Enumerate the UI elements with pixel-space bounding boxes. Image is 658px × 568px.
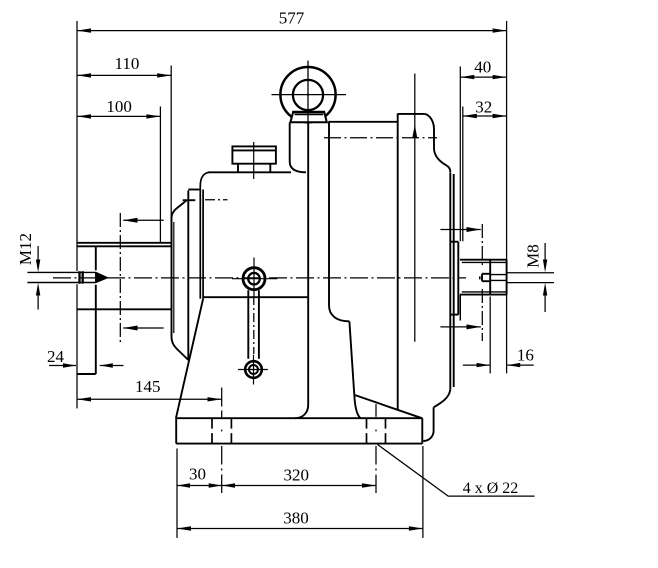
output shaft top inner xyxy=(462,261,507,263)
svg-text:380: 380 xyxy=(283,508,309,527)
base hole left side2 xyxy=(230,418,232,443)
M8 hole point tick xyxy=(479,276,481,279)
M8 thread inner bottom xyxy=(491,279,507,281)
arrowheads dim 577 xyxy=(77,28,91,32)
rim right edge upper xyxy=(433,130,435,149)
input shaft top line xyxy=(27,271,96,273)
dim 16 extension xyxy=(489,297,491,374)
dim 40 extension xyxy=(459,67,461,242)
oil level plug upper xyxy=(232,258,278,297)
dim 577 extension line left lower xyxy=(76,284,78,408)
svg-text:4 x Ø 22: 4 x Ø 22 xyxy=(463,480,519,497)
dim 40 line xyxy=(460,76,506,78)
base hole right side1 xyxy=(366,418,368,443)
body left edge outer xyxy=(200,172,209,298)
output shaft top outer xyxy=(460,259,507,261)
output shaft bottom inner xyxy=(462,291,507,293)
dim 100 extension xyxy=(159,107,161,244)
hub plate edge xyxy=(187,191,189,361)
cover boss lower edge xyxy=(459,295,461,321)
dim 577 line xyxy=(77,30,507,32)
base left edge xyxy=(175,418,177,443)
drum bottom fillet xyxy=(423,431,433,441)
main axis centerline xyxy=(53,277,466,279)
arrowhead right bolt circle upper xyxy=(467,227,481,232)
arrowheads dim 40 xyxy=(460,75,474,79)
flange plate right face upper xyxy=(95,246,97,270)
svg-text:24: 24 xyxy=(47,347,65,366)
body left edge inner xyxy=(202,190,204,299)
M8 hole bottom xyxy=(482,280,491,282)
arrowheads dim 320 xyxy=(222,483,235,487)
web right fillet to base xyxy=(354,395,360,418)
oil drain plug lower xyxy=(238,355,268,385)
eye bolt crosshair horizontal xyxy=(272,94,347,96)
svg-text:30: 30 xyxy=(189,465,206,484)
vertical reference line with up arrow xyxy=(414,74,416,342)
M8 thread inner top xyxy=(491,274,507,276)
arrowhead left bolt circle upper xyxy=(123,218,137,223)
arrowheads dim 30 xyxy=(177,483,190,487)
leader 4xD22 xyxy=(378,445,535,497)
svg-text:M8: M8 xyxy=(524,244,543,268)
flange plate bottom edge xyxy=(77,373,96,375)
web right edge xyxy=(349,321,354,395)
eye bolt collar (covers circle bottom) xyxy=(290,112,326,122)
cover step top xyxy=(450,241,458,243)
arrowheads M12 xyxy=(36,260,40,273)
svg-text:110: 110 xyxy=(114,54,139,73)
oil cap neck right xyxy=(269,164,271,172)
eye bolt collar inner line xyxy=(295,114,324,116)
dim 577 extension line left upper xyxy=(76,21,78,271)
dim 380 line xyxy=(177,528,423,530)
base hole centerline right xyxy=(375,404,377,493)
base right edge xyxy=(421,418,423,443)
left bolt circle centerline xyxy=(119,213,121,343)
arrowheads dim 380 xyxy=(177,526,191,530)
dim 16 line left tail xyxy=(463,364,490,366)
svg-text:100: 100 xyxy=(106,97,132,116)
oil cap centerline xyxy=(253,142,255,179)
oil tube left xyxy=(247,290,249,359)
right bolt-circle arrows tails xyxy=(440,229,480,231)
flange plate right face lower xyxy=(95,285,97,374)
oil tube right xyxy=(258,290,260,359)
eye bolt center dot xyxy=(307,94,309,96)
arrowhead up reference xyxy=(412,125,417,138)
hub ring left edge inner xyxy=(173,222,175,333)
eye bolt crosshair vertical xyxy=(307,61,309,124)
arrowheads dim 24 xyxy=(63,363,76,367)
thread bar 2 xyxy=(82,271,84,284)
hub bolt circle centerline xyxy=(205,199,228,201)
left bolt-circle arrows tails xyxy=(123,219,164,221)
oil cap outer xyxy=(232,146,276,163)
flange pilot bottom xyxy=(77,308,171,310)
svg-text:32: 32 xyxy=(475,98,492,117)
S-curve top xyxy=(434,148,450,172)
flange pilot top xyxy=(77,245,171,247)
input shaft bottom line xyxy=(27,282,96,284)
output shaft step xyxy=(489,260,491,295)
diagonal rib xyxy=(354,395,422,418)
dim 577 extension line right xyxy=(506,21,508,373)
M8 hole top xyxy=(482,273,491,275)
dim 100 line xyxy=(77,115,160,117)
arrowhead left bolt circle lower xyxy=(123,326,137,331)
arrowheads dim 110 xyxy=(77,73,91,77)
arrowheads M8 xyxy=(543,260,547,273)
base hole left side1 xyxy=(211,418,213,443)
dim 380 extension right xyxy=(422,446,424,538)
right bolt circle centerline lower xyxy=(481,289,483,341)
S-curve bottom xyxy=(434,389,451,407)
dim 110 extension xyxy=(170,66,172,247)
dim 110 line xyxy=(77,74,171,76)
cover face xyxy=(457,242,459,315)
rim left edge xyxy=(397,114,399,410)
drum right face xyxy=(449,172,451,389)
dim 16 line right tail xyxy=(507,364,534,366)
hub bottom chamfer xyxy=(172,337,189,360)
base plate bottom xyxy=(176,443,422,445)
eye bolt outer ring xyxy=(280,67,335,122)
dim 32 extension xyxy=(462,107,464,242)
dim 32 line xyxy=(463,115,507,117)
thread bar 1 xyxy=(78,271,80,284)
rim top right corner xyxy=(424,114,434,130)
hub ring left edge xyxy=(171,218,173,337)
rim top face xyxy=(398,113,425,115)
drum left edge with fillet to web xyxy=(329,122,349,321)
base hole centerline left xyxy=(221,388,223,494)
output shaft bottom outer xyxy=(460,294,507,296)
dim 24 line left tail xyxy=(49,365,76,367)
base plate top xyxy=(176,417,422,419)
dim 145 line xyxy=(77,398,222,400)
shaft cone tip xyxy=(97,273,108,283)
M8 hole end xyxy=(481,274,483,281)
eye boss left edge with fillet xyxy=(290,123,306,173)
body mid horizontal xyxy=(203,296,308,298)
hub top chamfer xyxy=(172,201,187,218)
shaft chamfer base xyxy=(95,272,97,282)
M8 arrow lines xyxy=(544,243,546,268)
eye bolt inner ring xyxy=(293,80,323,110)
cover step bottom xyxy=(450,314,458,316)
body top face xyxy=(208,171,291,173)
M8 extension lines xyxy=(507,272,554,274)
base hole right side2 xyxy=(385,418,387,443)
drum right face inner xyxy=(453,174,455,387)
dim 24 line right tail xyxy=(100,365,124,367)
output shaft end face xyxy=(506,260,508,295)
arrowhead right bolt circle lower xyxy=(467,324,481,329)
drum lower right edge xyxy=(433,407,435,431)
arrowheads dim 32 xyxy=(463,114,477,118)
eye bolt collar top bar xyxy=(292,111,325,114)
drum upper centerline xyxy=(324,137,437,139)
M12 arrow lines xyxy=(37,246,39,268)
hub plate top xyxy=(188,189,200,191)
drum top left section xyxy=(328,121,397,123)
oil cap inner line xyxy=(232,149,276,151)
oil tube centerline xyxy=(253,296,255,354)
right bolt circle centerline upper xyxy=(481,224,483,266)
svg-text:577: 577 xyxy=(279,8,305,27)
bell diagonal to base xyxy=(176,299,203,419)
arrowheads dim 16 xyxy=(477,363,490,367)
svg-text:145: 145 xyxy=(135,377,161,396)
flange plate top edge xyxy=(77,242,171,244)
svg-text:40: 40 xyxy=(474,58,491,77)
arrowheads dim 100 xyxy=(77,114,91,118)
dim 30 extension left xyxy=(176,449,178,538)
oil cap neck left xyxy=(237,164,239,172)
hub top edge xyxy=(183,199,196,201)
svg-text:16: 16 xyxy=(517,345,534,364)
dim 30-320 line xyxy=(177,485,376,487)
body right edge with bottom fillet xyxy=(295,123,309,419)
svg-text:M12: M12 xyxy=(16,233,35,265)
svg-text:320: 320 xyxy=(284,466,310,485)
arrowheads dim 145 xyxy=(77,397,91,401)
